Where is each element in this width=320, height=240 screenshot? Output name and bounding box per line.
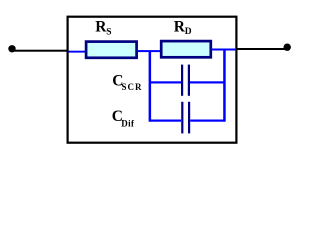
svg-text:S: S [106, 27, 111, 37]
C_SCR left plate [181, 65, 183, 96]
wire left branch vertical [149, 51, 152, 122]
svg-text:D: D [185, 27, 192, 37]
C_Dif right lead [190, 120, 225, 122]
capacitor C_SCR [150, 65, 225, 96]
wire right branch vertical [223, 49, 226, 122]
C_Dif left lead [150, 120, 181, 122]
resistor R_D [161, 41, 211, 57]
wire R_D to box right edge [211, 49, 236, 51]
wire R_S to R_D [137, 50, 161, 52]
right terminal node [284, 44, 291, 51]
wire box to right terminal [236, 48, 285, 50]
wire left terminal to box [12, 50, 68, 52]
C_SCR left lead [150, 81, 181, 83]
enclosure box [68, 17, 237, 143]
wire box edge to resistor R_S [68, 51, 86, 53]
C_SCR right lead [190, 81, 225, 83]
C_Dif right plate [188, 102, 190, 134]
C_SCR right plate [188, 65, 190, 96]
resistor R_S [86, 42, 137, 58]
svg-text:Dif: Dif [121, 118, 135, 128]
left terminal node [8, 45, 15, 52]
svg-text:SCR: SCR [122, 82, 143, 92]
C_Dif left plate [181, 102, 183, 134]
capacitor C_Dif [150, 102, 225, 134]
